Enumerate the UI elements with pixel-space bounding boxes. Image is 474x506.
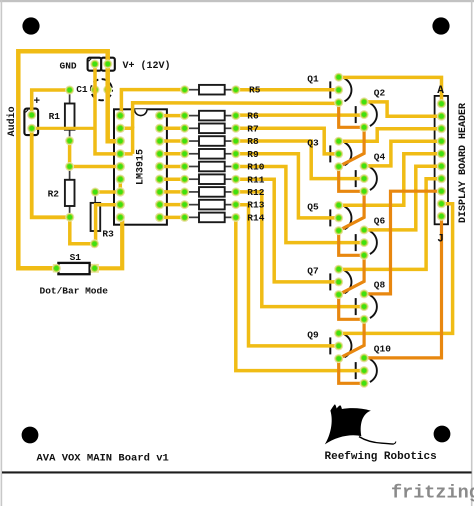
svg-text:Q5: Q5 [307, 202, 319, 213]
resistor R5 body [188, 89, 199, 91]
resistor R9 pads [180, 149, 189, 158]
svg-text:S1: S1 [70, 252, 82, 263]
svg-text:R10: R10 [247, 162, 264, 173]
wire R3 top to IC pin7 [95, 190, 120, 194]
wire emitter chain Q5 to Q6 [339, 231, 364, 256]
resistor R10 body [188, 165, 199, 167]
wire emitter chain Q3 to Q4 [339, 167, 364, 192]
wire emitter chain Q9 to Q10 [339, 359, 364, 384]
transistor Q10 body [355, 362, 357, 379]
svg-text:Q9: Q9 [307, 330, 319, 341]
wire emitter chain Q4 to Q5 [339, 191, 364, 230]
svg-text:V+ (12V): V+ (12V) [123, 60, 171, 72]
svg-text:fritzing: fritzing [391, 483, 474, 504]
transistor Q6 body [355, 234, 357, 251]
header pads [437, 99, 446, 108]
mounting hole top-left [22, 17, 39, 34]
transistor Q10 pads [360, 353, 369, 362]
wire R11 to Q7 base [236, 179, 339, 282]
R1 pads [65, 86, 74, 95]
svg-text:R12: R12 [247, 187, 264, 198]
svg-text:Q8: Q8 [374, 280, 386, 291]
power connector GND/V+ body [88, 58, 115, 71]
capacitor C1 pads [91, 85, 100, 94]
resistor R14 pads [180, 213, 189, 222]
svg-text:R3: R3 [102, 229, 114, 240]
svg-text:R9: R9 [247, 149, 259, 160]
resistor R6 pads [180, 111, 189, 120]
resistor R11 pads [180, 175, 189, 184]
wire R9 to Q5 base [236, 154, 339, 218]
resistor R7 pads [180, 124, 189, 133]
transistor Q2 body [355, 106, 357, 123]
Audio connector pads [27, 111, 36, 120]
svg-text:R2: R2 [48, 189, 60, 200]
board bottom edge [2, 471, 472, 473]
Reefwing Robotics manta logo [325, 404, 396, 444]
board right edge [471, 0, 473, 506]
wire Q7 collector to header pin7 [339, 179, 442, 270]
resistor R8 pads [180, 137, 189, 146]
op-amp/IC U1 LM3915 body [114, 109, 167, 224]
wire emitter chain Q2 to Q3 [339, 127, 364, 166]
R2 pads [65, 162, 74, 171]
mounting hole bottom-right [434, 426, 451, 443]
wire Audio pin2 down to R2 bottom [32, 128, 70, 217]
transistor Q2 pads [360, 97, 369, 106]
wire GND pad to IC pin4 [95, 64, 133, 154]
transistor Q3 pads [334, 137, 343, 146]
svg-text:Q10: Q10 [374, 344, 391, 355]
wire R7 to Q3 base [236, 128, 339, 154]
wire Audio pin1 to R1 top [32, 90, 70, 115]
wire R2 bottom to R3 bottom [70, 217, 95, 244]
S1 pads [52, 264, 61, 273]
wire Q6 collector to header pin6 [364, 166, 441, 230]
wire IC pin6-pin7 tie [119, 179, 123, 192]
svg-text:R11: R11 [247, 174, 264, 185]
switch S1 body [91, 264, 99, 273]
resistor R12 body [188, 191, 199, 193]
svg-text:+: + [34, 96, 41, 108]
wire S1 right to IC pin9 (mode) [95, 217, 123, 268]
svg-text:A: A [437, 85, 444, 97]
IC LM3915 pads [116, 111, 125, 120]
wire Q1 collector to header pin1 [339, 77, 442, 103]
resistor R13 pads [180, 200, 189, 209]
wire emitter chain Q8 to Q9 [339, 319, 364, 358]
svg-text:Q6: Q6 [374, 216, 386, 227]
svg-text:J: J [437, 234, 444, 246]
wires IC outputs to resistor ladder [160, 114, 185, 118]
wire IC pin2-pin4 bracket + ground rail riser [120, 128, 132, 154]
transistor Q9 pads [334, 329, 343, 338]
wire emitter chain Q1 to Q2 [339, 103, 364, 128]
svg-text:Q4: Q4 [374, 152, 386, 163]
connector Audio body [24, 109, 38, 136]
svg-text:R1: R1 [49, 111, 61, 122]
resistor R12 pads [180, 187, 189, 196]
wire IC pin1 up-and-over to R5 [121, 90, 184, 116]
board top edge [0, 0, 474, 2]
svg-text:Reefwing Robotics: Reefwing Robotics [325, 451, 437, 463]
display board header body [435, 96, 448, 224]
svg-text:LM3915: LM3915 [136, 149, 147, 185]
wire R8 to Q4 base [236, 141, 364, 179]
wire Q10 collector to header pin10 (bottom copper) [364, 216, 441, 358]
resistor R8 body [188, 140, 199, 142]
svg-text:GND: GND [60, 60, 77, 71]
capacitor C1 body [91, 79, 112, 100]
svg-text:C1: C1 [76, 84, 88, 95]
svg-text:R6: R6 [247, 111, 259, 122]
svg-text:Q7: Q7 [307, 266, 319, 277]
transistor Q1 pads [334, 73, 343, 82]
svg-text:DISPLAY BOARD HEADER: DISPLAY BOARD HEADER [458, 103, 469, 223]
wire Q5 collector to header pin5 [339, 154, 442, 206]
power connector pads [90, 60, 99, 69]
transistor Q9 body [329, 337, 331, 354]
transistor Q3 body [329, 145, 331, 162]
transistor Q5 pads [334, 201, 343, 210]
transistor Q4 body [355, 170, 357, 187]
svg-text:R13: R13 [247, 200, 264, 211]
wire R14 to Q10 base [236, 217, 364, 370]
transistor Q7 body [329, 273, 331, 290]
wire ground rail to Q1 emitter [133, 103, 339, 129]
wire R6 to Q2 base [236, 113, 364, 117]
wire R12 to Q8 base [236, 192, 364, 307]
transistor Q5 body [329, 209, 331, 226]
svg-text:Q3: Q3 [307, 138, 319, 149]
resistor R5 pads [180, 85, 189, 94]
wire R10 to Q6 base [236, 167, 364, 243]
transistor Q7 pads [334, 265, 343, 274]
wire Q3 collector to header pin3 [339, 129, 442, 142]
wire emitter chain Q7 to Q8 [339, 295, 364, 320]
transistor Q4 pads [360, 161, 369, 170]
resistor R1 body [69, 90, 71, 104]
svg-text:Q1: Q1 [307, 74, 319, 85]
mounting hole bottom-left [22, 427, 39, 444]
wire R13 to Q9 base [236, 205, 339, 346]
svg-text:AVA VOX MAIN Board v1: AVA VOX MAIN Board v1 [37, 453, 169, 465]
wire R1 bottom / R2 top to IC pin5 [68, 141, 72, 167]
resistor R13 body [188, 204, 199, 206]
resistor R14 body [188, 216, 199, 218]
svg-text:Q2: Q2 [374, 88, 386, 99]
wire Q8 collector to header pin8 (bottom copper) [364, 191, 441, 294]
resistor R2 body [69, 167, 71, 180]
transistor Q6 pads [360, 225, 369, 234]
board left edge [1, 0, 3, 506]
svg-text:Dot/Bar Mode: Dot/Bar Mode [40, 285, 109, 296]
resistor R7 body [188, 127, 199, 129]
resistor R3 body [94, 192, 96, 203]
transistor Q8 pads [360, 289, 369, 298]
transistor Q1 body [329, 81, 331, 98]
svg-text:R14: R14 [247, 212, 264, 223]
svg-text:R8: R8 [247, 136, 259, 147]
resistor R9 body [188, 153, 199, 155]
wire emitter chain Q6 to Q7 [339, 255, 364, 294]
resistor R10 pads [180, 162, 189, 171]
resistor R6 body [188, 115, 199, 117]
wire Q4 collector to header pin4 [364, 141, 441, 166]
wire Q2 collector to header pin2 [364, 102, 441, 116]
wire V+ big loop: top rail / left rail to S1 [18, 51, 120, 268]
wire Q9 collector to header pin9 (right side) [339, 204, 453, 334]
wire Audio pin2 to ground [32, 127, 95, 130]
wire R5 to Q1 base [236, 88, 339, 92]
svg-text:Audio: Audio [6, 106, 18, 136]
resistor R11 body [188, 178, 199, 180]
svg-text:R7: R7 [247, 123, 259, 134]
mounting hole top-right [432, 17, 449, 34]
svg-text:R5: R5 [249, 85, 261, 96]
R3 pads [91, 188, 100, 197]
wire R3 bottom to IC pin8 [96, 205, 121, 244]
transistor Q8 body [355, 298, 357, 315]
